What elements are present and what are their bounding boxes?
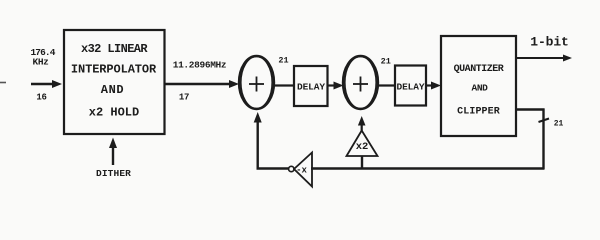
wire: D1 to summer S2 (328, 82, 344, 90)
wire: quantizer output arrow (516, 55, 572, 62)
svg-text:-x: -x (296, 166, 307, 176)
wire: S2 to delay D2 (378, 84, 395, 86)
svg-text:21: 21 (554, 120, 564, 129)
wire: feedback bottom rail (311, 167, 545, 169)
svg-text:AND: AND (472, 83, 489, 94)
svg-text:CLIPPER: CLIPPER (457, 107, 500, 118)
label: bus width tick 21 on feedback (539, 119, 564, 129)
summer S2 (343, 56, 378, 109)
summer S1 (239, 56, 274, 109)
wire: dither input arrow into interpolator bottom (109, 138, 117, 166)
svg-text:DELAY: DELAY (297, 82, 325, 93)
svg-text:INTERPOLATOR: INTERPOLATOR (71, 63, 157, 77)
svg-text:17: 17 (179, 93, 189, 103)
delay D1 (294, 66, 328, 106)
wire: input arrow into interpolator (31, 80, 62, 88)
label: 176.4 KHz input rate (30, 47, 55, 68)
wire: x2 stem from feedback rail (361, 156, 363, 169)
block U2: quantizer and clipper (441, 36, 516, 136)
wire: feedback tap from quantizer right edge (516, 108, 545, 110)
svg-text:x2: x2 (356, 141, 369, 153)
svg-text:KHz: KHz (33, 57, 49, 68)
block U1: x32 linear interpolator and x2 hold (64, 30, 165, 134)
wire: S1 to delay D1 (274, 84, 294, 86)
inverter A2: -x triangle with bubble (289, 153, 312, 187)
wire: inverter output to feedback left corner (257, 167, 289, 169)
delay D2 (395, 66, 426, 106)
wire: interpolator output to summer S1 (165, 80, 239, 88)
svg-text:21: 21 (381, 57, 391, 67)
amplifier A1: x2 gain triangle (347, 131, 378, 157)
wire: feedback rise arrow into S1 bottom (254, 112, 262, 170)
svg-text:1-bit: 1-bit (530, 35, 568, 50)
svg-text:21: 21 (278, 56, 288, 66)
svg-text:DELAY: DELAY (396, 82, 424, 93)
svg-text:x2 HOLD: x2 HOLD (89, 106, 139, 120)
svg-text:AND: AND (101, 83, 124, 97)
svg-text:x32 LINEAR: x32 LINEAR (81, 42, 148, 56)
svg-text:16: 16 (36, 93, 46, 103)
svg-text:11.2896MHz: 11.2896MHz (173, 60, 227, 71)
svg-text:QUANTIZER: QUANTIZER (454, 64, 504, 75)
wire: input stub at left edge (0, 82, 6, 84)
svg-text:DITHER: DITHER (96, 168, 131, 179)
wire: x2 output arrow into S2 bottom (358, 116, 366, 131)
wire: feedback vertical drop (542, 109, 544, 170)
wire: D2 to quantizer (426, 82, 441, 90)
